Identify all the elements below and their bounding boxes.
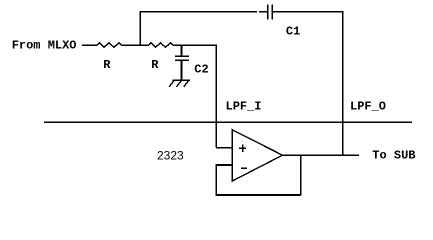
- wire feedback vertical from output: [300, 155, 302, 196]
- svg-text:C1: C1: [286, 25, 300, 39]
- op-amp - input marker: [241, 167, 247, 169]
- wire R1 to R2: [122, 44, 149, 46]
- wire feedback bottom: [215, 194, 300, 196]
- wire R2 to corner: [173, 44, 217, 46]
- node junction R1/R2 to feedback: [139, 12, 141, 45]
- wire op-amp - input stub: [216, 164, 232, 166]
- wire node LPF_O vertical: [342, 12, 344, 156]
- wire corner down to op-amp + input (node LPF_I): [215, 44, 217, 147]
- svg-text:From MLXO: From MLXO: [12, 39, 77, 53]
- wire op-amp + input stub: [216, 147, 232, 149]
- resistor R2: [149, 43, 174, 48]
- svg-text:2323: 2323: [157, 149, 184, 163]
- svg-text:C2: C2: [194, 63, 208, 77]
- wire output: [282, 154, 359, 156]
- capacitor C1: [268, 5, 273, 20]
- svg-text:R: R: [103, 58, 111, 72]
- capacitor C2: [175, 56, 189, 60]
- wire input to R1: [82, 44, 97, 46]
- svg-text:To SUB: To SUB: [372, 149, 415, 163]
- svg-text:LPF_O: LPF_O: [350, 100, 386, 114]
- wire C2 branch upper: [181, 45, 183, 56]
- wire - input down to feedback: [215, 164, 217, 195]
- wire horizontal bus: [44, 121, 412, 123]
- ground: [169, 80, 190, 87]
- wire top feedback short segment before C1: [259, 11, 267, 13]
- op-amp + input marker: [239, 145, 246, 152]
- wire C2 to ground: [181, 60, 183, 80]
- svg-text:LPF_I: LPF_I: [226, 99, 262, 113]
- wire top feedback left segment: [139, 11, 257, 13]
- svg-text:R: R: [151, 58, 159, 72]
- op-amp U1: [232, 130, 282, 181]
- wire top feedback right segment: [272, 11, 343, 13]
- resistor R1: [97, 43, 122, 48]
